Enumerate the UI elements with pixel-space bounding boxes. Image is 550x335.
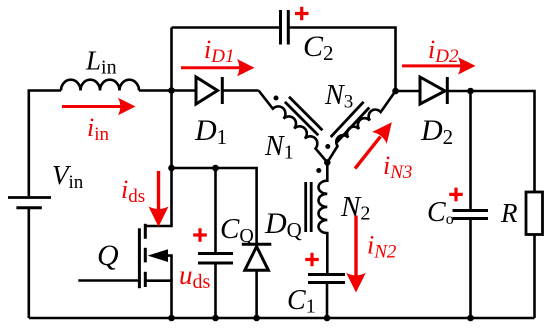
wire C1 to rail bbox=[326, 284, 329, 318]
plus sign C2 bbox=[295, 7, 309, 20]
wire C2 right to top-right corner bbox=[288, 28, 396, 92]
svg-text:Vin: Vin bbox=[52, 160, 84, 193]
plus sign Co bbox=[449, 188, 463, 202]
winding N2 bbox=[319, 162, 328, 274]
mosfet body arrow bbox=[148, 249, 168, 262]
svg-text:iD1: iD1 bbox=[204, 35, 234, 67]
svg-text:iD2: iD2 bbox=[428, 35, 459, 67]
current arrow i_D2 bbox=[402, 57, 476, 74]
wire R bottom to rail bbox=[533, 234, 536, 318]
wire DQ anode to rail bbox=[255, 270, 258, 318]
node dot DQ-rail junction bbox=[253, 315, 260, 322]
node dot Y center junction bbox=[324, 159, 331, 166]
svg-text:N3: N3 bbox=[324, 80, 353, 113]
node dot C1-rail junction bbox=[324, 315, 331, 322]
current arrow i_N3 bbox=[355, 122, 392, 168]
node dot N3 top junction bbox=[392, 88, 399, 95]
gate lead bbox=[78, 279, 139, 282]
phase dot N1 bbox=[274, 96, 279, 101]
svg-text:Co: Co bbox=[427, 197, 454, 228]
capacitor Co bbox=[453, 211, 489, 219]
current arrow i_in bbox=[62, 98, 136, 115]
channel bar bottom bbox=[144, 272, 147, 287]
source lead bbox=[145, 281, 171, 318]
drain lead bbox=[145, 168, 171, 226]
svg-text:D2: D2 bbox=[420, 114, 453, 149]
node dot source-rail junction bbox=[168, 315, 175, 322]
core lines N3 bbox=[331, 102, 370, 143]
core lines N1 bbox=[285, 97, 323, 136]
gate bar bbox=[138, 228, 141, 288]
svg-text:D1: D1 bbox=[194, 114, 227, 149]
wire left vertical + top-left horizontal bbox=[29, 91, 61, 319]
svg-text:iN3: iN3 bbox=[383, 151, 412, 183]
core lines N2 bbox=[306, 182, 312, 232]
wire D2 cathode to output corner bbox=[447, 91, 534, 192]
phase dot N2 bbox=[316, 168, 321, 173]
node dot CQ top junction bbox=[212, 165, 219, 172]
channel bar top bbox=[144, 224, 147, 239]
current arrow i_N2 bbox=[346, 216, 366, 293]
capacitor C2 bbox=[281, 10, 289, 45]
svg-text:ids: ids bbox=[121, 175, 145, 207]
node dot drain junction bbox=[168, 165, 175, 172]
svg-text:iin: iin bbox=[87, 113, 110, 145]
channel bar middle bbox=[144, 248, 147, 263]
winding N1 bbox=[259, 91, 328, 163]
svg-text:C1: C1 bbox=[287, 285, 316, 318]
current arrow i_ds bbox=[149, 171, 169, 227]
plus sign C1 bbox=[305, 253, 319, 267]
svg-text:C2: C2 bbox=[303, 30, 334, 65]
diode D1 bbox=[196, 77, 222, 104]
wire vertical drain branch x=171.5 bbox=[170, 28, 173, 169]
wire top rail to C2 left bbox=[172, 26, 281, 29]
resistor R bbox=[526, 192, 543, 235]
svg-text:R: R bbox=[500, 198, 518, 228]
node dot CQ-rail junction bbox=[212, 315, 219, 322]
wire CQ branch bbox=[214, 168, 217, 318]
capacitor CQ bbox=[198, 254, 233, 264]
node dot D2 cathode junction bbox=[467, 88, 474, 95]
svg-text:Q: Q bbox=[97, 239, 119, 272]
node dot D1 anode junction bbox=[168, 87, 175, 94]
node dot Co-rail junction bbox=[467, 315, 474, 322]
svg-text:CQ: CQ bbox=[220, 213, 254, 247]
diode DQ bbox=[242, 244, 271, 270]
wire D1 cathode to N1 bbox=[222, 89, 258, 92]
current arrow i_D1 bbox=[181, 59, 255, 76]
wire D2 anode bbox=[396, 90, 421, 93]
MOSFET Q bbox=[78, 168, 171, 318]
phase dot N3 bbox=[325, 144, 330, 149]
battery Vin bbox=[8, 198, 51, 208]
wire bottom rail bbox=[29, 317, 535, 320]
svg-text:iN2: iN2 bbox=[367, 231, 397, 263]
svg-text:DQ: DQ bbox=[264, 207, 302, 242]
svg-text:uds: uds bbox=[179, 260, 211, 293]
wire Lin to D1 node bbox=[139, 89, 196, 92]
diode D2 bbox=[420, 77, 447, 104]
svg-text:Lin: Lin bbox=[85, 46, 117, 79]
svg-text:N1: N1 bbox=[264, 131, 294, 164]
plus sign CQ bbox=[193, 228, 207, 242]
inductor Lin bbox=[61, 80, 139, 91]
capacitor C1 bbox=[308, 275, 345, 283]
wire mid horizontal drain node to DQ bbox=[172, 168, 257, 243]
wire Co branch bbox=[469, 91, 472, 318]
body connection bbox=[166, 256, 172, 281]
winding N3 bbox=[327, 91, 395, 162]
